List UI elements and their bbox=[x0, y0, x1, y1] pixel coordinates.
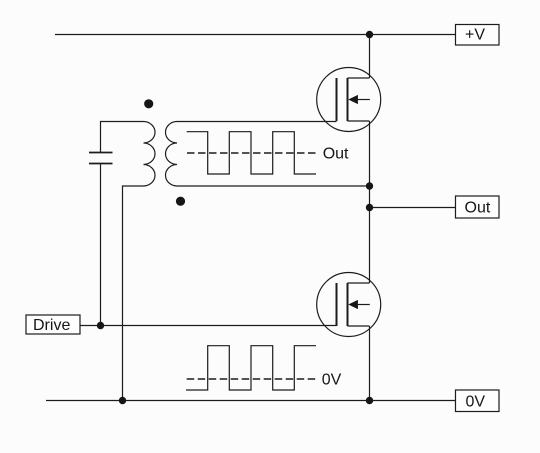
svg-text:+V: +V bbox=[465, 27, 485, 44]
svg-text:0V: 0V bbox=[322, 372, 342, 389]
svg-text:Out: Out bbox=[465, 200, 491, 217]
svg-text:0V: 0V bbox=[466, 394, 486, 411]
svg-text:Drive: Drive bbox=[33, 317, 70, 334]
svg-text:Out: Out bbox=[323, 146, 349, 163]
